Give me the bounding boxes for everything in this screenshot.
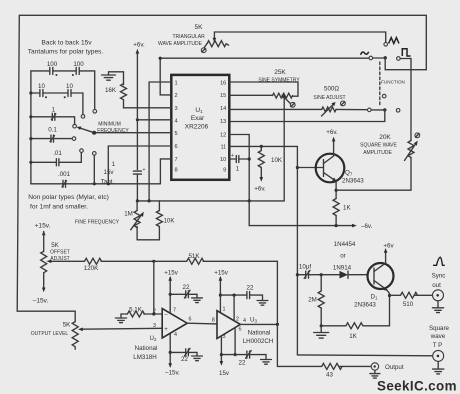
- potentiometer 25K sine symmetry: [273, 93, 293, 98]
- svg-text:or: or: [340, 253, 346, 260]
- node fine freq at pin12 riser: [248, 199, 251, 202]
- wire U2 +15v: [169, 278, 171, 314]
- wiper arrowhead 5K pot: [213, 38, 217, 43]
- arrowhead U3 +15v: [219, 276, 223, 281]
- wire U3 -15v riser: [220, 337, 222, 363]
- switch contact square position row2: [396, 109, 400, 113]
- svg-text:+: +: [164, 327, 168, 333]
- wire cap to pin12 riser: [239, 158, 249, 160]
- svg-text:FREQUENCY: FREQUENCY: [97, 128, 129, 134]
- wire node to diode: [321, 274, 339, 276]
- wire cap to ground (U2 +15): [188, 293, 197, 295]
- ground U3 +15 bypass: [257, 301, 268, 306]
- svg-text:SINE SYMMETRY: SINE SYMMETRY: [258, 78, 300, 84]
- capacitor 22 (U2 +15): [184, 290, 190, 298]
- ground U3 -15 bypass: [261, 355, 272, 365]
- svg-text:for 1mf and smaller.: for 1mf and smaller.: [30, 204, 88, 211]
- wire 43 to output connector: [340, 365, 375, 367]
- polarity dot 10 left: [45, 96, 47, 98]
- glyph sync pulse: [433, 257, 445, 265]
- svg-text:+6v.: +6v.: [326, 129, 338, 136]
- svg-text:Sync: Sync: [432, 273, 446, 280]
- stub U3 pin5: [234, 327, 236, 354]
- wiper riser 25K to fine freq wire: [283, 97, 285, 201]
- svg-text:10: 10: [66, 83, 73, 90]
- capacitor 22 (U2 -15): [184, 348, 190, 356]
- wire 2M node to 1K: [321, 325, 346, 327]
- ground U2 -15 bypass: [192, 352, 203, 360]
- switch contact square position row1: [397, 57, 401, 61]
- svg-text:120K: 120K: [84, 265, 99, 272]
- svg-text:+6v: +6v: [383, 242, 394, 249]
- wire to 10uf: [297, 274, 305, 276]
- svg-text:7: 7: [175, 157, 178, 163]
- node bus row 10: [29, 91, 32, 94]
- svg-text:6: 6: [175, 144, 178, 150]
- potentiometer 20K square wave amplitude: [408, 141, 414, 158]
- wire 1K to -6v bus: [335, 216, 337, 226]
- arrowhead Q8 emitter: [383, 287, 388, 291]
- wire 1K to emitter riser: [363, 296, 389, 326]
- svg-text:8: 8: [175, 168, 178, 174]
- wire 16K top to ground: [109, 72, 124, 85]
- capacitor 1: [51, 113, 56, 120]
- svg-text:22: 22: [247, 284, 254, 291]
- polarity dot 10 right: [64, 96, 66, 98]
- wire ground to 5.1K: [121, 313, 127, 315]
- svg-text:10μf: 10μf: [299, 263, 311, 270]
- arrowhead 25K: [281, 94, 285, 98]
- potentiometer 500 ohm sine adjust: [322, 107, 336, 112]
- svg-text:+15v.: +15v.: [35, 222, 51, 229]
- wire pin2 to sine contact (long top bus): [160, 58, 369, 95]
- capacitor .001 (on bus): [62, 180, 67, 187]
- ground sync out: [432, 301, 443, 313]
- node U3 pin5 stub: [234, 353, 237, 356]
- wire square contact to 20K pot: [400, 59, 411, 141]
- output inner dot: [374, 365, 376, 367]
- svg-text:100: 100: [73, 61, 84, 68]
- node feedback/51K: [152, 260, 155, 263]
- switch contact 10: [81, 115, 85, 119]
- wire row 0.1: [31, 138, 51, 140]
- capacitor 100 (left): [50, 67, 53, 74]
- wire pin4 to +6v riser: [137, 119, 171, 121]
- wire fine frequency top: [137, 200, 284, 202]
- svg-text:11: 11: [220, 144, 226, 150]
- panel symbol 20K: [415, 133, 420, 138]
- svg-text:2N3643: 2N3643: [342, 178, 364, 185]
- node bus row 1: [29, 115, 32, 118]
- svg-text:2: 2: [236, 317, 239, 323]
- node fine freq left (pin4 riser): [136, 199, 139, 202]
- svg-text:6: 6: [189, 316, 192, 322]
- node U3 -15 bypass: [220, 353, 223, 356]
- resistor 5.1K: [127, 311, 144, 317]
- svg-text:.001: .001: [58, 171, 71, 178]
- wiper arrow 1M: [131, 214, 143, 230]
- wire 510 to sync connector: [415, 294, 438, 296]
- svg-text:+6v.: +6v.: [133, 42, 145, 49]
- wire U3 output to 43: [277, 324, 321, 366]
- svg-text:+: +: [231, 153, 234, 159]
- wire 51K to U3 output riser: [203, 261, 277, 324]
- svg-text:10K: 10K: [163, 217, 175, 224]
- Q7 emitter: [324, 173, 335, 181]
- Q8 emitter: [374, 281, 386, 290]
- svg-text:4: 4: [243, 318, 246, 324]
- wire row 100: [31, 70, 50, 72]
- svg-text:T P: T P: [433, 342, 443, 349]
- svg-text:5K: 5K: [51, 242, 59, 249]
- Q8 collector: [374, 251, 386, 272]
- potentiometer 5K triangular wave amplitude: [207, 41, 229, 47]
- svg-text:Exar: Exar: [191, 115, 205, 122]
- dashed link function switch: [379, 62, 381, 107]
- svg-text:51K: 51K: [188, 253, 200, 260]
- wire function-pole to output-level pot (top and left frame): [17, 15, 426, 321]
- wire tant cap to fine freq node: [136, 174, 138, 201]
- wire pin11 to Q7 base riser: [229, 146, 297, 355]
- transistor Q7 2N3643: [316, 154, 345, 183]
- glyph triangle wave: [389, 38, 399, 44]
- svg-text:out: out: [432, 282, 441, 289]
- svg-text:2: 2: [175, 93, 178, 99]
- resistor 1K (Q8 emitter): [346, 323, 363, 329]
- svg-text:–6v.: –6v.: [361, 223, 373, 230]
- wire 10uf to diode node: [309, 274, 322, 276]
- switch contact sine position row2: [368, 108, 372, 112]
- node 10K top: [260, 145, 263, 148]
- svg-text:Square: Square: [429, 325, 450, 332]
- svg-text:4: 4: [174, 332, 177, 338]
- arrowhead +6v top: [136, 49, 140, 54]
- connector output: [371, 363, 378, 370]
- glyph square wave: [402, 49, 410, 56]
- rotary switch pole minimum frequency: [92, 131, 96, 135]
- wire feedback node to pin2 node: [153, 261, 155, 314]
- panel symbol 500ohm: [341, 101, 346, 106]
- arrowhead 10K to +6v: [260, 177, 264, 182]
- polarity dot 100 left: [55, 74, 57, 76]
- capacitor 10uf: [304, 270, 310, 278]
- arrowhead 500ohm: [331, 102, 335, 106]
- ground U2 +15 bypass: [192, 294, 203, 302]
- potentiometer 1M fine frequency: [134, 201, 140, 240]
- ground 16K: [102, 75, 116, 80]
- wire row 10: [31, 92, 40, 94]
- wire pin15 to 25K left end: [229, 94, 272, 96]
- wire Q7 emitter down: [335, 182, 337, 199]
- svg-text:500Ω: 500Ω: [324, 85, 339, 92]
- wire pin7 to cap bus: [160, 159, 171, 184]
- capacitor 0.1: [50, 135, 55, 142]
- wiper arrow 500ohm: [322, 104, 334, 116]
- svg-text:1: 1: [236, 166, 240, 173]
- wire cap to ground (U2 -15): [188, 351, 197, 353]
- wiper wire output level to U2 pin3: [81, 327, 162, 330]
- svg-text:+: +: [143, 167, 146, 173]
- wire pin3 from 16K: [124, 100, 172, 108]
- wire 500ohm to row2 sine contact: [336, 108, 368, 110]
- switch contact triangle position row1: [384, 43, 388, 47]
- svg-text:−: −: [164, 313, 168, 319]
- node pin2 riser top: [159, 57, 162, 60]
- wire -6v bus: [249, 225, 352, 227]
- switch contact .01: [80, 149, 84, 153]
- wire U3 +15v riser: [219, 278, 221, 312]
- svg-text:14: 14: [220, 106, 226, 112]
- capacitor 10 (left): [40, 90, 43, 97]
- wire U2 +15 bypass: [170, 293, 186, 295]
- svg-text:15v: 15v: [219, 370, 230, 377]
- capacitor 10 (right): [68, 90, 71, 97]
- arrowhead U2 +15v: [168, 276, 172, 281]
- resistor 10K (pin11 to +6v): [258, 146, 264, 178]
- diode 1N4454: [340, 271, 349, 279]
- svg-text:+15v: +15v: [214, 269, 228, 276]
- ground 5.1K: [115, 314, 126, 323]
- wire capacitor-bank left bus: [30, 71, 32, 184]
- svg-text:OUTPUT LEVEL: OUTPUT LEVEL: [31, 331, 69, 337]
- node pin2 U2: [152, 312, 155, 315]
- wire row .01 to contact: [59, 152, 81, 162]
- wire pin14 to 500 ohm pot: [229, 108, 321, 110]
- switch contact triangle position row2: [382, 94, 386, 98]
- arrowhead -6v: [352, 224, 357, 228]
- svg-text:OFFSET: OFFSET: [50, 250, 70, 256]
- svg-text:12: 12: [220, 132, 226, 138]
- ground TP: [433, 361, 444, 374]
- op-amp U3 LH0002CH: [217, 311, 240, 339]
- node 2M bottom: [320, 324, 323, 327]
- svg-text:Output: Output: [385, 364, 404, 371]
- wire pin1 to fine-frequency node: [149, 82, 171, 201]
- wire row 1: [31, 116, 52, 118]
- wire U2 -15 bypass: [170, 351, 186, 353]
- IC U1 XR2206 body: [171, 75, 229, 180]
- ground output connector: [370, 370, 380, 378]
- node Q7 emitter branch: [335, 189, 338, 192]
- svg-text:–15v.: –15v.: [165, 370, 180, 377]
- svg-text:1N914: 1N914: [333, 264, 352, 271]
- Q8 base bar: [373, 268, 375, 284]
- svg-text:16K: 16K: [105, 87, 117, 94]
- svg-text:FUNCTION: FUNCTION: [381, 80, 405, 85]
- svg-text:National: National: [248, 329, 271, 336]
- resistor 51K: [187, 258, 204, 264]
- switch contact sine position row1: [369, 56, 373, 60]
- svg-text:5: 5: [175, 131, 178, 137]
- panel symbol 25K: [290, 102, 295, 107]
- resistor 510: [401, 292, 418, 298]
- arrowhead U3 -15v: [220, 361, 224, 366]
- svg-text:13: 13: [220, 119, 226, 125]
- resistor 43: [322, 363, 342, 369]
- resistor 1K Q7 emitter: [333, 199, 339, 216]
- svg-text:FINE FREQUENCY: FINE FREQUENCY: [75, 219, 120, 225]
- TP inner dot: [437, 355, 440, 358]
- wire Q8 emitter to node: [387, 290, 390, 296]
- wire pin5 to rotary pole: [94, 132, 171, 134]
- svg-text:3: 3: [175, 106, 178, 112]
- switch contact 100: [93, 110, 97, 114]
- wire pin16 to 25K right end: [229, 82, 298, 96]
- svg-text:0.1: 0.1: [48, 127, 57, 134]
- node Q8 emitter: [388, 294, 391, 297]
- svg-text:3: 3: [153, 323, 156, 329]
- resistor 120K: [85, 258, 102, 264]
- svg-text:43: 43: [326, 371, 333, 378]
- wire 120K to feedback node: [101, 260, 187, 262]
- node function pole 2: [383, 108, 386, 111]
- svg-text:WAVE AMPLITUDE: WAVE AMPLITUDE: [158, 41, 203, 47]
- svg-text:+6v.: +6v.: [254, 186, 266, 193]
- svg-text:10: 10: [38, 83, 45, 90]
- arrowhead offset wiper: [47, 260, 52, 264]
- wiper arrow 25K: [283, 96, 291, 104]
- node Q7 base tap: [296, 166, 299, 169]
- wire cap to ground (U3 -15): [250, 354, 266, 356]
- wire fine freq bottom U: [137, 239, 159, 241]
- wire U3 output: [240, 323, 277, 325]
- node fine freq right (pin1 riser): [148, 199, 151, 202]
- svg-text:10: 10: [220, 157, 226, 163]
- node U3 output: [276, 323, 279, 326]
- svg-text:+15v: +15v: [164, 269, 178, 276]
- arrowhead Q7 +6v: [332, 137, 336, 142]
- svg-text:Non polar types (Mylar, etc): Non polar types (Mylar, etc): [28, 194, 109, 201]
- wire cap to ground (U3 +15): [250, 295, 263, 300]
- wire U3 +15 bypass: [220, 294, 247, 296]
- svg-text:–15v.: –15v.: [33, 297, 49, 304]
- node diode/2M: [320, 273, 323, 276]
- arrowhead output level wiper: [78, 328, 83, 332]
- svg-text:22: 22: [183, 284, 190, 291]
- capacitor 100 (right): [76, 67, 79, 74]
- arrowhead 20K: [414, 141, 418, 146]
- svg-text:1: 1: [52, 107, 56, 114]
- arrowhead Q7 emitter: [332, 178, 337, 182]
- svg-text:Tantalums for polar types.: Tantalums for polar types.: [28, 48, 104, 55]
- wire .001 contact drop: [93, 155, 95, 184]
- wiper wire offset to 120K: [50, 260, 85, 262]
- resistor 16K: [121, 84, 127, 100]
- svg-text:8: 8: [212, 317, 215, 323]
- svg-text:22: 22: [239, 360, 246, 367]
- wire row .01: [31, 161, 57, 163]
- wire between 100 caps: [53, 70, 76, 72]
- wire sine row2 contact to pole 2: [371, 109, 385, 111]
- wire row 100 to contact: [79, 71, 95, 110]
- connector square wave TP: [433, 350, 444, 361]
- wire pin12 riser: [229, 135, 249, 226]
- potentiometer 5K offset adjust: [41, 232, 47, 289]
- svg-text:22: 22: [181, 356, 188, 363]
- node cap1 at pin12 riser: [248, 157, 251, 160]
- svg-text:5.1K: 5.1K: [129, 306, 143, 313]
- svg-text:LM318H: LM318H: [133, 354, 156, 361]
- svg-text:1: 1: [112, 161, 116, 168]
- Q7 base bar: [323, 160, 325, 177]
- wire 5.1K to U2 pin2: [144, 313, 162, 315]
- connector sync out: [433, 290, 444, 301]
- node bus pin6 drop: [107, 182, 110, 185]
- wire pole2 to pin13: [229, 110, 384, 122]
- node U3 pin2 stub: [233, 294, 236, 297]
- svg-text:5K: 5K: [63, 321, 71, 328]
- svg-text:LH0002CH: LH0002CH: [243, 338, 274, 345]
- wire U2 out to U3 in: [187, 322, 217, 325]
- glyph sine wave: [361, 52, 369, 55]
- sync inner dot: [436, 294, 439, 297]
- wire 5K wiper to triangle contact: [214, 32, 385, 42]
- switch contact 1: [73, 124, 77, 128]
- wire row 0.1 to contact: [54, 138, 73, 140]
- panel symbol 5K pot: [201, 48, 206, 53]
- svg-text:.01: .01: [53, 150, 62, 157]
- Q7 collector: [324, 142, 334, 164]
- svg-text:National: National: [135, 345, 158, 352]
- node 1K at -6v bus: [335, 224, 338, 227]
- potentiometer 5K output level: [72, 322, 78, 350]
- svg-text:510: 510: [403, 301, 414, 308]
- svg-text:7: 7: [173, 308, 176, 314]
- svg-text:1N4454: 1N4454: [334, 241, 356, 248]
- svg-text:2M: 2M: [308, 297, 317, 304]
- svg-text:2N3643: 2N3643: [354, 302, 376, 309]
- svg-text:2: 2: [153, 308, 156, 314]
- wire function pole drop: [385, 58, 426, 70]
- supply +6v riser (top): [136, 52, 138, 170]
- svg-text:wave: wave: [430, 333, 446, 340]
- arrowhead -15v offset: [42, 288, 46, 293]
- polarity dot 100 right: [72, 74, 74, 76]
- switch contact 0.1: [72, 137, 76, 141]
- arrowhead 1M: [140, 212, 144, 217]
- lead and panel mark 5K pot: [205, 44, 207, 47]
- wire cap bus bottom (.001 row): [31, 183, 161, 185]
- arrowhead Q8 +6v: [384, 248, 388, 253]
- svg-text:1M: 1M: [124, 211, 133, 218]
- capacitor .01: [56, 159, 59, 166]
- svg-text:1K: 1K: [343, 204, 351, 211]
- wire row 1 to contact: [55, 117, 75, 125]
- node bus row .01: [29, 161, 32, 164]
- capacitor 22 (U3 +15): [247, 292, 250, 299]
- node bus row 0.1: [29, 137, 32, 140]
- wire U2 -15v: [169, 333, 171, 365]
- wire between 10 caps: [43, 92, 68, 94]
- capacitor 1 15v Tant: [133, 171, 141, 174]
- svg-text:16: 16: [220, 80, 226, 86]
- node bus .001 contact drop: [93, 182, 96, 185]
- ground 2M: [314, 326, 329, 338]
- op-amp U2 LM318H: [162, 309, 187, 339]
- svg-text:1: 1: [223, 306, 226, 312]
- arrowhead U2 -15v: [168, 363, 172, 368]
- svg-text:Back to back 15v: Back to back 15v: [41, 39, 92, 46]
- resistor 2M: [318, 275, 324, 326]
- svg-text:10K: 10K: [271, 157, 283, 164]
- svg-text:4: 4: [175, 118, 178, 124]
- wire pin10 cap lead: [229, 158, 236, 160]
- node U2 -15 bypass: [169, 351, 172, 354]
- svg-text:5K: 5K: [195, 24, 204, 31]
- switch contact .001: [93, 152, 97, 156]
- svg-text:MINIMUM: MINIMUM: [98, 122, 121, 128]
- wire sine contact to pole: [373, 57, 385, 59]
